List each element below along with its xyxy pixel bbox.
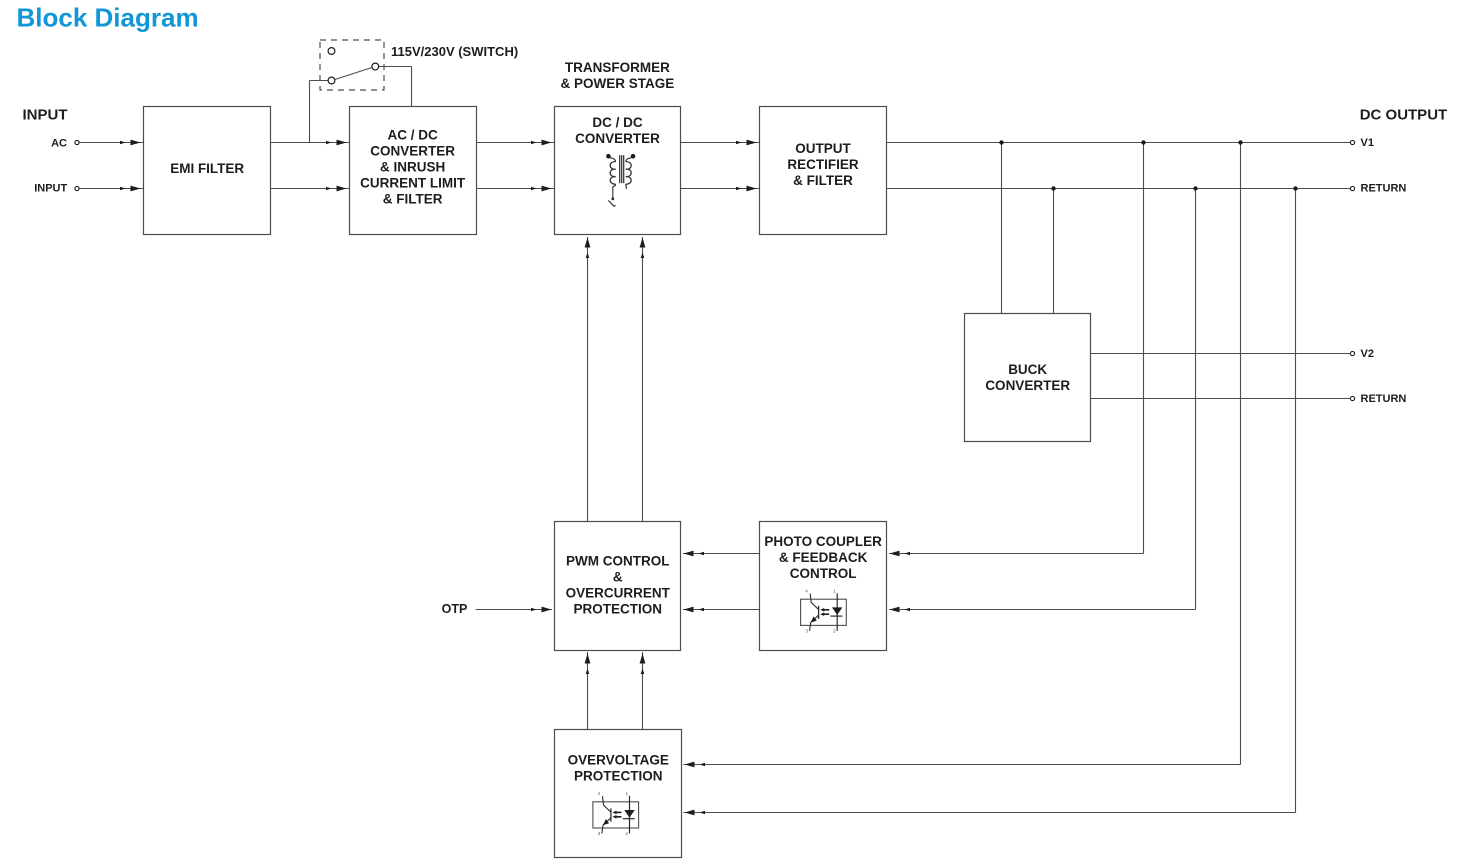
svg-text:OUTPUT: OUTPUT: [795, 141, 851, 156]
svg-text:AC / DC: AC / DC: [387, 128, 438, 143]
svg-text:& FILTER: & FILTER: [383, 192, 443, 207]
svg-text:CONTROL: CONTROL: [790, 566, 857, 581]
svg-text:&: &: [613, 570, 623, 585]
svg-text:& FEEDBACK: & FEEDBACK: [779, 550, 868, 565]
svg-text:V2: V2: [1361, 348, 1374, 360]
svg-text:& FILTER: & FILTER: [793, 173, 853, 188]
svg-text:& INRUSH: & INRUSH: [380, 160, 445, 175]
svg-text:OTP: OTP: [442, 602, 468, 616]
svg-text:INPUT: INPUT: [34, 183, 67, 195]
svg-text:CONVERTER: CONVERTER: [575, 131, 660, 146]
svg-text:CURRENT LIMIT: CURRENT LIMIT: [360, 176, 466, 191]
svg-text:PROTECTION: PROTECTION: [574, 769, 663, 784]
svg-text:CONVERTER: CONVERTER: [985, 378, 1070, 393]
svg-text:INPUT: INPUT: [23, 106, 68, 123]
svg-text:CONVERTER: CONVERTER: [370, 144, 455, 159]
svg-text:RETURN: RETURN: [1361, 182, 1407, 194]
svg-text:DC OUTPUT: DC OUTPUT: [1360, 107, 1448, 124]
svg-text:PROTECTION: PROTECTION: [574, 602, 663, 617]
svg-text:RETURN: RETURN: [1361, 393, 1407, 405]
svg-text:BUCK: BUCK: [1008, 362, 1047, 377]
svg-text:& POWER STAGE: & POWER STAGE: [561, 76, 675, 91]
svg-text:115V/230V (SWITCH): 115V/230V (SWITCH): [391, 44, 518, 59]
svg-text:Block Diagram: Block Diagram: [17, 3, 199, 33]
svg-text:RECTIFIER: RECTIFIER: [787, 157, 859, 172]
svg-text:EMI FILTER: EMI FILTER: [170, 161, 244, 176]
svg-text:DC / DC: DC / DC: [592, 115, 643, 130]
svg-text:V1: V1: [1361, 137, 1374, 149]
svg-text:TRANSFORMER: TRANSFORMER: [565, 60, 670, 75]
svg-text:PHOTO COUPLER: PHOTO COUPLER: [764, 534, 882, 549]
svg-text:PWM CONTROL: PWM CONTROL: [566, 554, 670, 569]
svg-text:AC: AC: [51, 138, 67, 150]
svg-text:OVERCURRENT: OVERCURRENT: [566, 586, 671, 601]
svg-text:OVERVOLTAGE: OVERVOLTAGE: [568, 753, 669, 768]
